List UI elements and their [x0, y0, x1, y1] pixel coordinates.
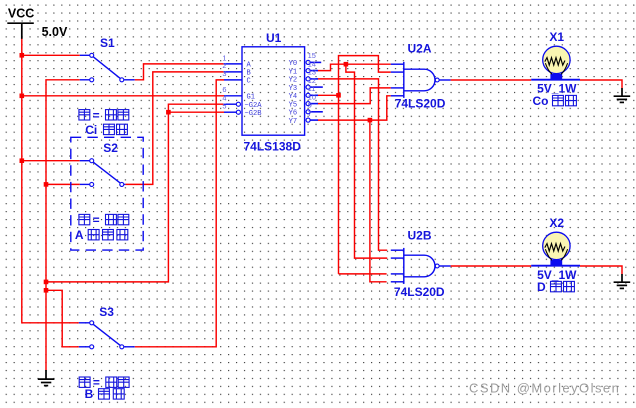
S2 name label A 被减数	[75, 228, 128, 242]
junction on VCC rail at S2	[20, 158, 25, 163]
wire S2 bottom throw feed	[46, 183, 80, 185]
wire S3 common to U1 pin C	[135, 80, 224, 347]
S1 key label line 键 = 空格	[79, 108, 129, 122]
svg-text:Y3: Y3	[289, 85, 298, 93]
svg-text:B: B	[85, 387, 94, 401]
svg-text:Y4: Y4	[289, 93, 298, 101]
svg-text:=: =	[93, 108, 100, 122]
wire G2A G2B enable net to GND rail	[46, 104, 224, 282]
ground symbol bottom left	[38, 370, 55, 386]
decoder U1 74LS138D body	[242, 47, 305, 135]
svg-text:S3: S3	[99, 305, 114, 319]
svg-text:Y6: Y6	[289, 110, 298, 118]
wire Y7 to U2A input 4	[318, 96, 391, 120]
svg-text:C: C	[247, 78, 251, 86]
switch S1	[80, 53, 135, 82]
svg-text:D: D	[537, 280, 546, 294]
selection box around S2	[71, 137, 143, 250]
svg-text:~G2B: ~G2B	[245, 110, 262, 118]
svg-text:3: 3	[222, 69, 226, 78]
svg-text:7: 7	[308, 109, 312, 118]
junction Y7 branch	[368, 118, 373, 123]
junction on GND rail at S3 bottom	[44, 288, 49, 293]
S3 name label B 减数	[85, 387, 125, 401]
nand gate U2A 74LS20D	[391, 62, 451, 98]
wire S1 common to U1 pin A	[135, 64, 224, 80]
svg-text:X2: X2	[549, 216, 564, 230]
svg-text:X1: X1	[549, 30, 564, 44]
junction on GND rail at G2 net	[44, 280, 49, 285]
svg-text:CSDN @MorleyOlsen: CSDN @MorleyOlsen	[469, 380, 620, 395]
wire U2B output to lamp X2	[451, 265, 532, 267]
svg-text:U1: U1	[266, 31, 282, 45]
svg-text:Y5: Y5	[289, 101, 298, 109]
svg-text:U2A: U2A	[408, 42, 432, 56]
wire lamp X1 to ground	[580, 80, 622, 88]
X1 name label Co 借位	[533, 94, 577, 108]
U1 pin 4 bubble	[236, 102, 240, 106]
U1 output bubbles Y0-Y7	[306, 60, 310, 122]
wire U2A output to lamp X1	[451, 79, 532, 81]
wire net B bottom to U2B input 3	[339, 273, 387, 275]
switch S2	[80, 159, 126, 187]
wire G2B branch	[168, 111, 224, 113]
svg-text:Co: Co	[533, 94, 549, 108]
wire S1 top throw feed	[22, 54, 80, 56]
svg-text:=: =	[93, 376, 100, 390]
wire Y1 branch to U2B input 2	[346, 64, 387, 258]
svg-text:U2B: U2B	[408, 228, 432, 242]
ground symbol at lamp X1	[614, 88, 631, 102]
junction on GND rail at S2 bottom	[44, 182, 49, 187]
power VCC	[7, 23, 34, 39]
svg-text:5.0V: 5.0V	[42, 25, 68, 39]
svg-text:=: =	[93, 213, 100, 227]
S2 key label line 键 = 空格	[79, 213, 129, 227]
svg-text:Y7: Y7	[289, 118, 298, 126]
ground symbol at lamp X2	[614, 274, 631, 288]
lamp X2	[531, 232, 580, 266]
X2 name label D 差值	[537, 280, 574, 294]
svg-text:74LS138D: 74LS138D	[244, 139, 302, 153]
svg-text:5: 5	[222, 101, 226, 110]
svg-text:74LS20D: 74LS20D	[394, 285, 445, 299]
svg-text:~G2A: ~G2A	[245, 102, 263, 110]
wire Y2 to U2B input 1	[318, 79, 388, 250]
S1 name label Ci 借位	[85, 123, 127, 137]
wire GND rail from S1 bottom throw to ground	[46, 80, 80, 371]
S3 key label line 键 = 空格	[79, 376, 129, 390]
wire S2 common to U1 pin B	[125, 72, 224, 184]
junction G2A G2B tie	[166, 110, 171, 115]
svg-text:S2: S2	[103, 141, 118, 155]
nand gate U2B 74LS20D	[391, 248, 451, 284]
wire VCC rail to U1 pin G1	[22, 95, 224, 97]
svg-text:Y2: Y2	[289, 77, 298, 85]
svg-text:Ci: Ci	[85, 123, 97, 137]
junction on VCC rail at S1	[20, 53, 25, 58]
wire net B vertical Y4 to U2B input 3	[339, 56, 391, 274]
svg-text:VCC: VCC	[8, 7, 34, 21]
wire Y7 branch to U2B input 4	[370, 120, 387, 282]
wire lamp X2 to ground	[580, 266, 622, 274]
svg-text:B: B	[247, 70, 251, 78]
switch S3	[79, 321, 135, 349]
wire S2 top throw feed	[22, 160, 80, 162]
svg-text:A: A	[75, 228, 84, 242]
svg-text:74LS20D: 74LS20D	[395, 97, 446, 111]
U1 left pin stubs	[224, 64, 242, 112]
U1 pin 5 bubble	[236, 110, 240, 114]
wire Y4 to junction on net B	[318, 94, 339, 96]
svg-text:A: A	[247, 62, 252, 70]
wire VCC rail to S3 top throw	[22, 39, 79, 323]
svg-text:S1: S1	[100, 36, 115, 50]
wire S3 bottom throw feed	[46, 290, 79, 347]
junction Y1 branch	[344, 62, 349, 67]
junction Y4 net B	[336, 93, 341, 98]
wire Y1 to U2A input 1	[318, 64, 391, 70]
lamp X1	[531, 46, 580, 80]
U1 right pin stubs	[311, 62, 323, 120]
svg-text:G1: G1	[247, 94, 256, 102]
svg-text:Y0: Y0	[289, 60, 298, 68]
wire Y5 to U2A input 3	[318, 88, 391, 104]
junction on VCC rail at G1	[20, 94, 25, 99]
svg-text:Y1: Y1	[289, 68, 298, 76]
